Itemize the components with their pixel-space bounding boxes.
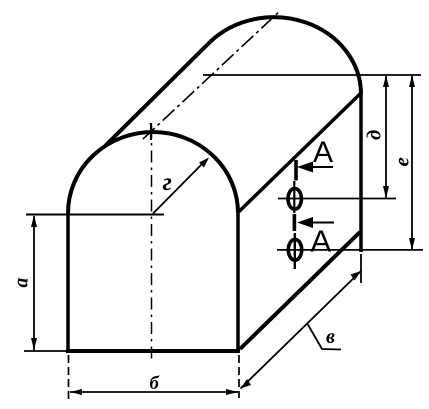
hole 1 leader line	[278, 198, 396, 200]
section arrow lower	[301, 222, 334, 224]
section arrow lower head	[297, 217, 313, 228]
dimension e top arrowhead	[409, 75, 415, 87]
back right edge	[359, 93, 363, 252]
svg-text:е: е	[390, 157, 414, 166]
dimension e line	[411, 76, 413, 249]
hole 2 ellipse	[288, 239, 301, 260]
dimension a bottom arrowhead	[31, 338, 37, 350]
front right edge	[236, 212, 240, 351]
hole 2 leader line	[277, 249, 423, 251]
dimension b right extension	[238, 355, 240, 398]
front bottom edge	[66, 349, 240, 353]
dimension b left extension	[68, 355, 70, 399]
dimension e bottom arrowhead	[409, 238, 415, 250]
dimension d top arrowhead	[383, 75, 389, 87]
dimension a bottom extension	[24, 350, 66, 352]
front left edge	[66, 213, 70, 351]
dimension v upper extension	[360, 254, 362, 283]
hole 2 vertical center mark	[294, 233, 296, 269]
dimension a top arrowhead	[31, 215, 37, 227]
svg-text:А: А	[311, 224, 332, 259]
section plane tick lower	[293, 214, 297, 231]
dimension d line	[385, 76, 387, 198]
radius dimension g line	[153, 160, 206, 214]
svg-text:а: а	[12, 278, 33, 288]
horizontal center line of front arc / dimension a top extension	[26, 214, 164, 216]
svg-text:г: г	[163, 167, 172, 196]
dimension v upper arrowhead	[351, 271, 362, 281]
top tangent edge	[105, 42, 210, 146]
dimension b line	[70, 391, 238, 393]
dimension b left arrowhead	[70, 389, 82, 395]
radius g arrowhead	[199, 158, 209, 168]
hole 1 ellipse	[288, 188, 301, 209]
front arc	[68, 132, 238, 213]
dimension a line	[33, 216, 35, 350]
dimension v leader	[307, 323, 341, 350]
dimension d bottom arrowhead	[383, 186, 389, 199]
tick at front arc top	[150, 123, 152, 140]
crest axis dash-dot line	[143, 10, 281, 139]
svg-text:А: А	[313, 136, 333, 169]
top extension line for d and e dimensions	[203, 74, 421, 76]
dimension v line	[241, 271, 362, 389]
bottom right oblique edge	[240, 232, 360, 349]
hole 1 vertical center mark	[293, 181, 295, 213]
dimension b right arrowhead	[226, 389, 238, 395]
back arc	[210, 17, 361, 94]
section plane tick upper	[294, 160, 298, 181]
svg-text:д: д	[364, 130, 386, 140]
section arrow upper head	[297, 162, 313, 173]
svg-text:б: б	[150, 373, 160, 394]
svg-text:в: в	[326, 326, 335, 348]
dimension v lower arrowhead	[241, 379, 252, 389]
front center vertical dash-dot line	[151, 126, 153, 361]
section arrow upper	[301, 166, 333, 168]
right shoulder edge	[239, 94, 361, 213]
